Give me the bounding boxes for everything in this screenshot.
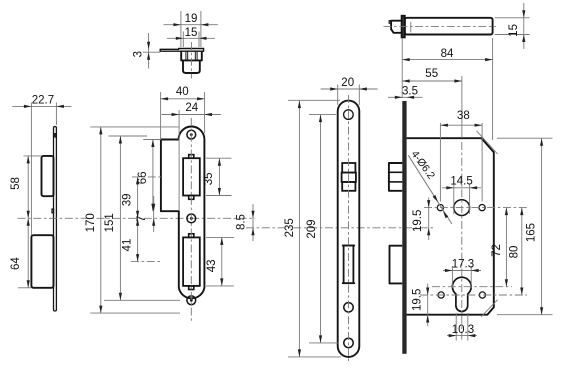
svg-text:58: 58 [10,177,22,190]
svg-text:151: 151 [104,213,116,232]
svg-text:17.3: 17.3 [452,258,474,270]
svg-text:24: 24 [185,102,198,114]
svg-text:38: 38 [457,110,470,122]
svg-text:8.5: 8.5 [235,214,247,230]
svg-text:40: 40 [176,86,189,98]
svg-text:10.3: 10.3 [452,324,474,336]
svg-text:35: 35 [203,172,215,185]
svg-text:19: 19 [185,13,198,25]
svg-text:41: 41 [122,239,134,252]
svg-text:84: 84 [441,48,454,60]
svg-text:55: 55 [425,68,438,80]
svg-text:165: 165 [526,223,538,242]
svg-text:20: 20 [341,77,354,89]
svg-text:3: 3 [133,51,145,57]
svg-text:7: 7 [136,216,148,222]
svg-text:19.5: 19.5 [411,289,423,311]
svg-text:43: 43 [206,259,218,272]
svg-text:72: 72 [491,244,503,257]
svg-text:80: 80 [508,246,520,259]
svg-text:209: 209 [306,219,318,238]
svg-text:39: 39 [122,193,134,206]
svg-text:14.5: 14.5 [450,176,472,188]
svg-text:19.5: 19.5 [412,210,424,232]
svg-text:235: 235 [284,218,296,237]
svg-text:3.5: 3.5 [402,86,418,98]
svg-text:66: 66 [137,171,149,184]
svg-text:170: 170 [85,213,97,232]
svg-text:64: 64 [10,257,22,270]
svg-text:22.7: 22.7 [32,95,54,107]
svg-text:15: 15 [185,27,198,39]
svg-text:15: 15 [508,24,520,37]
